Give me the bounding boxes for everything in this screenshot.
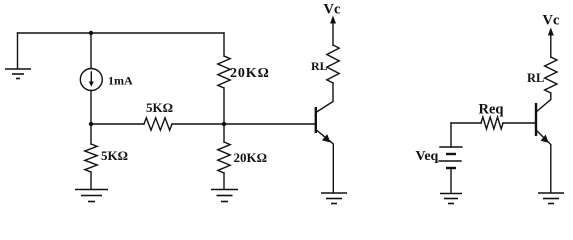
svg-text:Vc: Vc [543, 13, 560, 29]
svg-text:Req: Req [479, 102, 504, 118]
svg-text:20KΩ: 20KΩ [234, 150, 268, 165]
svg-text:5KΩ: 5KΩ [146, 100, 173, 115]
svg-text:RL: RL [527, 71, 544, 85]
svg-text:5KΩ: 5KΩ [101, 148, 128, 163]
svg-text:20KΩ: 20KΩ [230, 66, 270, 81]
svg-text:Veq: Veq [416, 149, 439, 164]
svg-text:Vc: Vc [324, 2, 341, 18]
svg-text:1mA: 1mA [108, 74, 133, 88]
svg-text:RL: RL [311, 59, 328, 73]
